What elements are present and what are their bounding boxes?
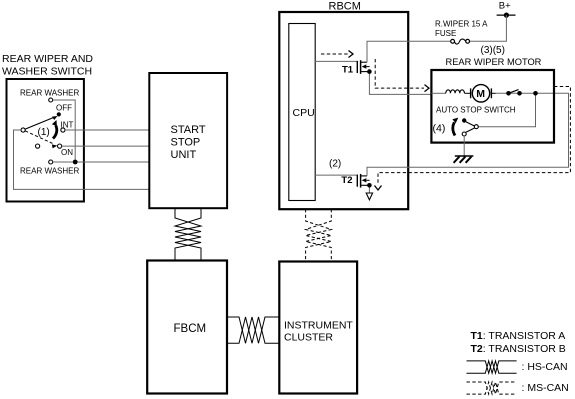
wire CPU to T1 gate xyxy=(314,60,357,62)
wire pivot to start stop unit xyxy=(14,130,150,189)
auto stop switch blade lower xyxy=(466,128,474,132)
switch blade motor xyxy=(509,90,519,94)
wire washer top to junction xyxy=(53,100,75,162)
switch blade dashed to ON xyxy=(25,131,57,149)
svg-text:CLUSTER: CLUSTER xyxy=(284,331,333,343)
svg-text:M: M xyxy=(476,88,485,100)
contact dot 2 xyxy=(517,91,522,96)
wire T1 source to motor xyxy=(369,72,431,95)
label T1 xyxy=(342,64,354,75)
auto stop switch contact right xyxy=(474,125,478,129)
wire ON to start stop unit xyxy=(62,145,150,147)
label CPU xyxy=(293,107,315,119)
contact OFF xyxy=(57,112,61,116)
svg-text:OFF: OFF xyxy=(56,104,72,113)
box START STOP UNIT xyxy=(149,73,227,208)
svg-text:: MS-CAN: : MS-CAN xyxy=(522,382,569,394)
contact INT xyxy=(61,128,65,132)
svg-text:UNIT: UNIT xyxy=(171,149,197,161)
rotation arrow (4) xyxy=(452,118,458,136)
dashed path T1 to motor xyxy=(375,59,429,92)
ground xyxy=(454,156,474,163)
legend symbol MS-CAN xyxy=(467,382,517,394)
wire motor to contacts xyxy=(496,92,537,94)
svg-text:(4): (4) xyxy=(433,123,446,135)
label FBCM xyxy=(174,323,207,335)
wire T1 drain to fuse line xyxy=(367,41,453,62)
svg-text:T2: T2 xyxy=(341,175,352,186)
label INSTRUMENT CLUSTER xyxy=(284,319,353,343)
switch blade to OFF xyxy=(25,116,57,129)
label B+ xyxy=(499,1,511,12)
ground arrow T2 xyxy=(366,193,372,200)
wire INT to start stop unit xyxy=(65,129,150,131)
wire common to ground xyxy=(463,136,465,156)
dashed path motor to T2 xyxy=(375,87,571,191)
svg-text:T1: T1 xyxy=(342,64,354,75)
wire auto stop to motor row xyxy=(478,93,535,126)
wire CPU to T2 gate xyxy=(314,174,357,176)
label (3)(5) xyxy=(481,45,505,56)
svg-text:T2: TRANSISTOR B: T2: TRANSISTOR B xyxy=(471,343,566,355)
contact ON xyxy=(58,144,62,148)
junction T1 source xyxy=(367,69,372,74)
svg-text:(2): (2) xyxy=(329,159,341,170)
svg-text:CPU: CPU xyxy=(293,107,315,119)
inductor motor coil xyxy=(446,90,465,94)
motor M xyxy=(465,85,496,102)
auto stop switch contact up xyxy=(462,118,466,122)
svg-text:T1: TRANSISTOR A: T1: TRANSISTOR A xyxy=(471,330,566,342)
junction washer xyxy=(73,160,78,165)
label START STOP UNIT xyxy=(171,124,206,161)
svg-text:: HS-CAN: : HS-CAN xyxy=(522,361,568,373)
svg-text:WASHER SWITCH: WASHER SWITCH xyxy=(2,66,92,78)
label REAR WIPER MOTOR xyxy=(446,57,542,67)
svg-text:START: START xyxy=(171,124,206,136)
transistor T2 xyxy=(357,174,369,188)
label ON xyxy=(61,148,73,157)
label (2) xyxy=(329,159,341,170)
label RBCM xyxy=(329,1,361,13)
label T2 xyxy=(341,175,352,186)
twisted pair HS-CAN start stop unit to FBCM xyxy=(175,208,201,260)
wire motor row left xyxy=(431,92,446,94)
wire T2 source down xyxy=(368,185,370,193)
svg-text:(1): (1) xyxy=(38,127,50,138)
box CPU xyxy=(289,24,315,201)
svg-text:STOP: STOP xyxy=(171,137,201,149)
switch pivot xyxy=(21,128,25,132)
auto stop switch blade upper xyxy=(466,122,475,126)
legend T1 xyxy=(471,330,566,342)
terminal rear washer bottom xyxy=(49,160,53,164)
legend symbol HS-CAN xyxy=(467,361,517,373)
legend label MS-CAN xyxy=(522,382,569,394)
wire B+ to fuse xyxy=(470,15,507,41)
label (1) xyxy=(38,127,50,138)
svg-text:REAR WASHER: REAR WASHER xyxy=(20,167,79,176)
svg-text:INSTRUMENT: INSTRUMENT xyxy=(284,319,353,331)
box FBCM xyxy=(147,261,227,394)
svg-text:B+: B+ xyxy=(499,1,511,12)
wire T2 drain to auto stop switch xyxy=(367,93,569,176)
terminal B+ xyxy=(497,13,516,18)
legend label HS-CAN xyxy=(522,361,568,373)
junction T2 source xyxy=(367,183,372,188)
svg-text:FUSE: FUSE xyxy=(435,29,456,38)
twisted pair MS-CAN RBCM to instrument cluster xyxy=(306,209,332,261)
svg-text:AUTO STOP SWITCH: AUTO STOP SWITCH xyxy=(436,106,516,115)
svg-text:REAR WIPER MOTOR: REAR WIPER MOTOR xyxy=(446,57,542,67)
box rear wiper motor xyxy=(431,70,554,143)
transistor T1 xyxy=(357,60,369,74)
legend T2 xyxy=(471,343,566,355)
label REAR WASHER (top) xyxy=(20,89,79,98)
svg-text:REAR WASHER: REAR WASHER xyxy=(20,89,79,98)
dashed arrow CPU to T1 xyxy=(321,51,353,58)
rotation arrow (1) xyxy=(52,120,57,139)
svg-text:(3)(5): (3)(5) xyxy=(481,45,505,56)
svg-text:R.WIPER 15 A: R.WIPER 15 A xyxy=(435,20,488,29)
fuse R.WIPER 15 A xyxy=(451,39,470,44)
svg-text:ON: ON xyxy=(61,148,73,157)
auto stop switch common xyxy=(462,132,466,136)
terminal rear washer top xyxy=(49,98,53,102)
label (4) xyxy=(433,123,446,135)
box rear wiper and washer switch xyxy=(7,79,84,202)
label REAR WASHER (bottom) xyxy=(20,167,79,176)
contact dot 3 xyxy=(533,91,538,96)
label AUTO STOP SWITCH xyxy=(436,106,516,115)
label OFF xyxy=(56,104,72,113)
twisted pair HS-CAN FBCM to instrument cluster xyxy=(227,317,279,343)
label R.WIPER 15 A FUSE xyxy=(435,20,488,39)
wire washer bottom to start stop unit xyxy=(53,161,150,163)
contact ON left xyxy=(36,144,40,148)
label REAR WIPER AND WASHER SWITCH xyxy=(2,53,93,78)
svg-text:FBCM: FBCM xyxy=(174,323,207,335)
label INT xyxy=(61,121,74,130)
box INSTRUMENT CLUSTER xyxy=(279,262,357,394)
svg-text:REAR WIPER AND: REAR WIPER AND xyxy=(2,53,93,65)
svg-text:RBCM: RBCM xyxy=(329,1,361,13)
box RBCM xyxy=(279,12,408,209)
contact dot 1 xyxy=(506,91,511,96)
